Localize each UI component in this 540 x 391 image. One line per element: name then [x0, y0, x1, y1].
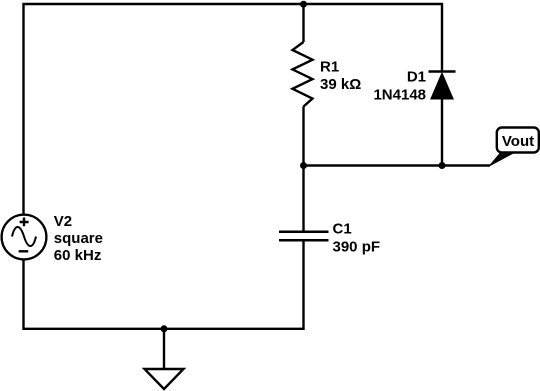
node Vout callout tail	[490, 151, 518, 166]
diode D1 cathode bar	[429, 70, 456, 73]
wire top rail: left corner up, across top, down to diode cathode	[24, 4, 443, 215]
resistor R1 zigzag	[293, 42, 313, 107]
wire from top node down to resistor R1	[302, 4, 304, 42]
capacitor C1 top plate	[279, 230, 329, 233]
wire from diode D1 anode down to output node	[441, 99, 443, 166]
svg-text:Vout: Vout	[502, 133, 534, 150]
node Vout callout box	[497, 128, 539, 153]
svg-text:R1: R1	[320, 59, 339, 76]
voltage source V2 sine glyph	[12, 227, 36, 246]
junction ground / bottom rail	[161, 325, 168, 332]
wire ground stub	[163, 329, 165, 369]
ground	[145, 369, 184, 389]
wire from resistor R1 down to capacitor C1	[302, 107, 304, 231]
svg-text:D1: D1	[407, 69, 426, 86]
svg-text:39 kΩ: 39 kΩ	[320, 76, 361, 93]
voltage source V2 plus sign	[20, 218, 29, 227]
svg-text:V2: V2	[54, 213, 72, 230]
svg-text:390 pF: 390 pF	[333, 239, 381, 256]
junction diode anode / output wire	[439, 162, 446, 169]
svg-text:60 kHz: 60 kHz	[54, 247, 102, 264]
voltage source V2 circle	[2, 215, 47, 260]
junction top node (R1 / top rail)	[300, 1, 307, 8]
wire bottom rail: source bottom down, across bottom, up to capacitor	[24, 241, 304, 329]
svg-text:1N4148: 1N4148	[373, 86, 426, 103]
svg-text:square: square	[54, 230, 103, 247]
capacitor C1 bottom plate	[279, 239, 329, 242]
wire output node horizontal to Vout tap	[304, 164, 491, 166]
diode D1 anode triangle	[431, 73, 453, 99]
junction output node (R1 / C1 / wire)	[300, 162, 307, 169]
svg-text:C1: C1	[333, 221, 352, 238]
voltage source V2 minus sign	[19, 250, 29, 252]
